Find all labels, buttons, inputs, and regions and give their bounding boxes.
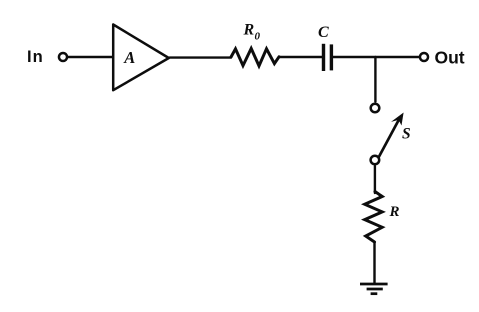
- svg-text:C: C: [318, 24, 329, 41]
- svg-text:R: R: [389, 204, 400, 220]
- svg-text:A: A: [123, 48, 135, 67]
- svg-text:Out: Out: [435, 48, 465, 68]
- svg-text:0: 0: [255, 31, 261, 43]
- svg-text:S: S: [402, 125, 411, 142]
- svg-text:R: R: [243, 22, 255, 39]
- svg-text:In: In: [27, 48, 44, 66]
